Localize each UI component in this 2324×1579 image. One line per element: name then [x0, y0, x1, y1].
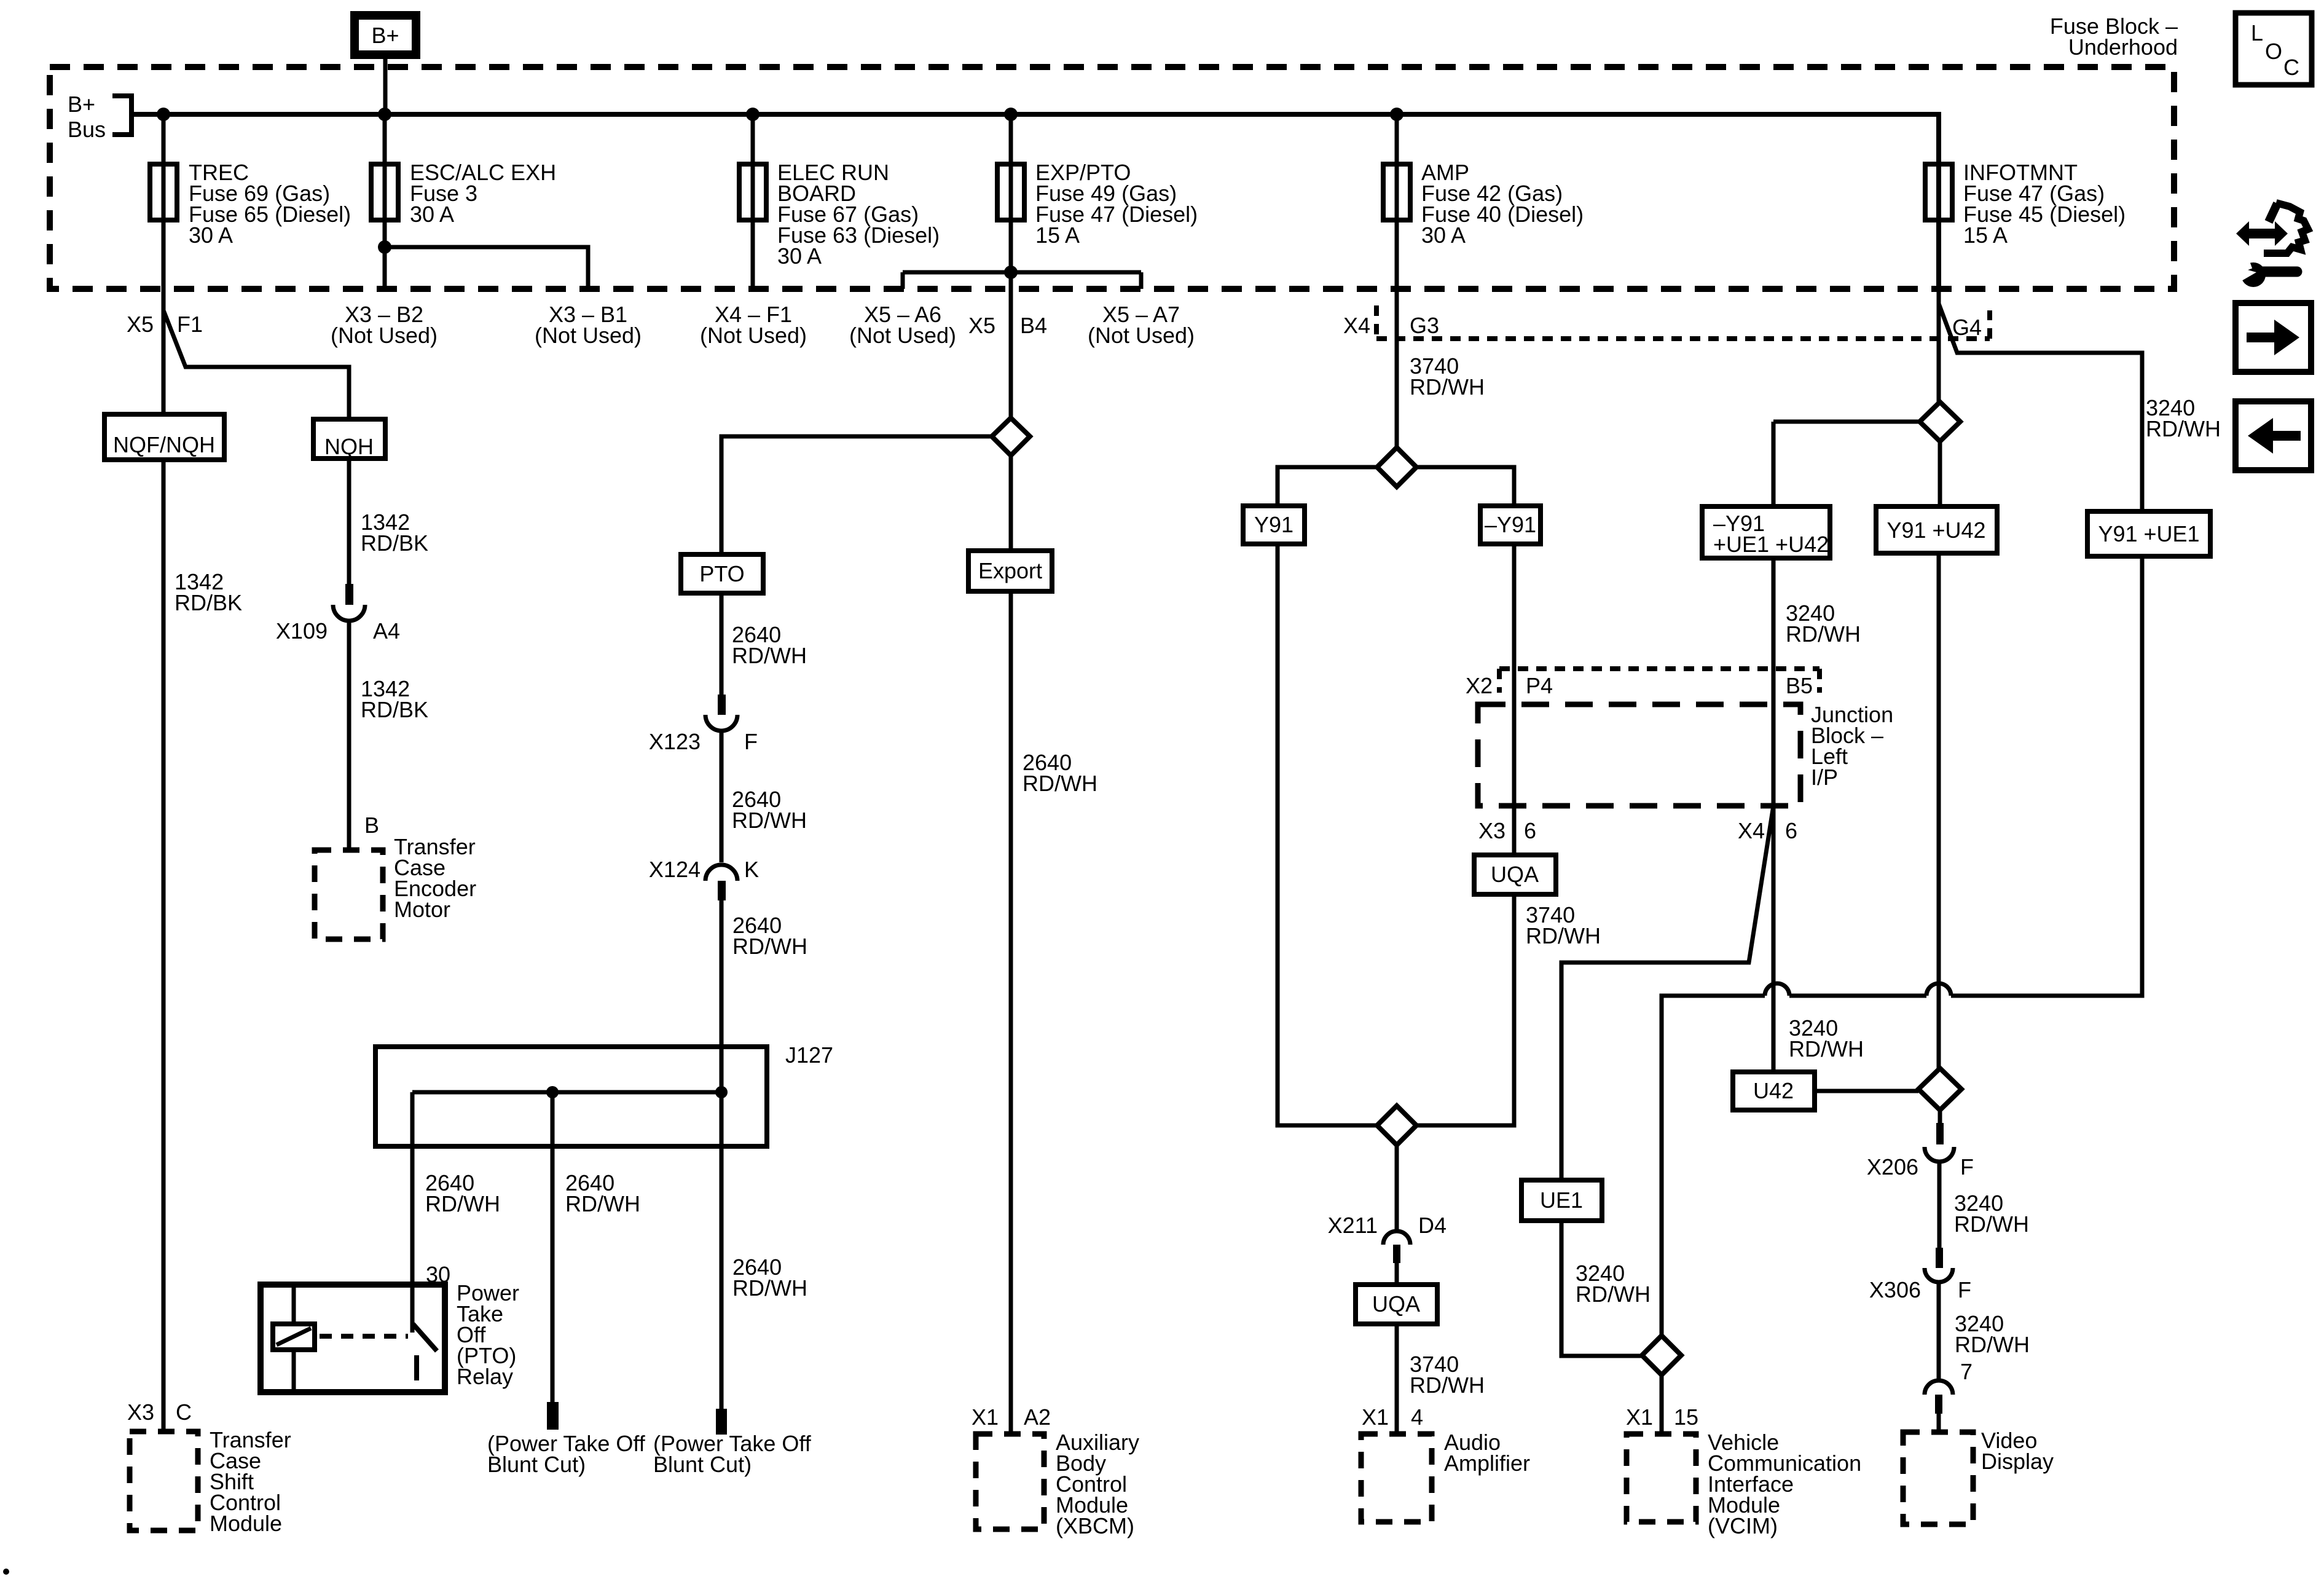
svg-text:RD/WH: RD/WH	[1410, 1372, 1485, 1398]
svg-text:(Not Used): (Not Used)	[1088, 323, 1195, 348]
svg-text:Amplifier: Amplifier	[1444, 1451, 1530, 1476]
svg-text:X206: X206	[1867, 1154, 1918, 1179]
svg-text:X306: X306	[1869, 1277, 1921, 1302]
svg-text:30: 30	[426, 1262, 450, 1287]
svg-text:RD/WH: RD/WH	[732, 643, 807, 668]
svg-text:F: F	[1958, 1277, 1971, 1302]
svg-text:U42: U42	[1753, 1078, 1794, 1103]
svg-text:RD/WH: RD/WH	[1576, 1282, 1651, 1307]
svg-text:B+: B+	[68, 92, 95, 117]
svg-text:X5: X5	[127, 312, 154, 337]
svg-text:F: F	[744, 729, 758, 754]
svg-text:–Y91: –Y91	[1485, 512, 1536, 537]
svg-text:4: 4	[1411, 1404, 1423, 1430]
svg-text:RD/WH: RD/WH	[1955, 1332, 2030, 1357]
svg-text:Export: Export	[978, 558, 1042, 583]
svg-text:Y91 +U42: Y91 +U42	[1886, 518, 1985, 543]
svg-text:G3: G3	[1410, 313, 1439, 338]
svg-text:+UE1 +U42: +UE1 +U42	[1713, 532, 1829, 557]
svg-text:RD/WH: RD/WH	[1954, 1211, 2029, 1237]
svg-text:RD/WH: RD/WH	[732, 1275, 807, 1301]
svg-text:X109: X109	[276, 618, 328, 644]
svg-text:X123: X123	[649, 729, 701, 754]
svg-text:30 A: 30 A	[189, 222, 233, 248]
svg-text:X1: X1	[1362, 1404, 1389, 1430]
svg-text:(Not Used): (Not Used)	[849, 323, 956, 348]
svg-text:K: K	[744, 857, 759, 882]
svg-text:X1: X1	[972, 1404, 999, 1430]
svg-text:Blunt Cut): Blunt Cut)	[487, 1452, 586, 1477]
svg-text:RD/WH: RD/WH	[732, 808, 807, 833]
svg-text:X2: X2	[1466, 673, 1493, 698]
svg-text:(Not Used): (Not Used)	[331, 323, 438, 348]
svg-text:UQA: UQA	[1491, 862, 1539, 887]
svg-text:RD/WH: RD/WH	[1023, 771, 1097, 796]
svg-text:NQF/NQH: NQF/NQH	[113, 432, 215, 457]
svg-text:Y91: Y91	[1254, 512, 1294, 537]
svg-text:RD/WH: RD/WH	[1786, 621, 1861, 647]
svg-text:Relay: Relay	[457, 1364, 513, 1389]
svg-text:RD/BK: RD/BK	[361, 530, 428, 556]
svg-text:15 A: 15 A	[1035, 222, 1080, 248]
svg-text:X1: X1	[1626, 1404, 1653, 1430]
svg-text:B5: B5	[1786, 673, 1813, 698]
svg-text:30 A: 30 A	[410, 202, 454, 227]
svg-text:Blunt Cut): Blunt Cut)	[653, 1452, 752, 1477]
svg-text:(Not Used): (Not Used)	[700, 323, 807, 348]
svg-text:RD/WH: RD/WH	[1789, 1036, 1864, 1061]
svg-text:Bus: Bus	[68, 117, 106, 142]
svg-text:RD/WH: RD/WH	[1526, 923, 1601, 948]
svg-text:X3: X3	[127, 1400, 154, 1425]
svg-text:O: O	[2265, 39, 2282, 64]
svg-text:F: F	[1960, 1154, 1974, 1179]
svg-text:L: L	[2251, 20, 2263, 45]
svg-text:D4: D4	[1418, 1213, 1447, 1238]
svg-text:RD/WH: RD/WH	[2146, 416, 2221, 441]
svg-text:UQA: UQA	[1372, 1291, 1420, 1317]
svg-text:(XBCM): (XBCM)	[1056, 1513, 1134, 1538]
svg-text:B+: B+	[371, 23, 399, 48]
svg-text:P4: P4	[1526, 673, 1553, 698]
svg-text:J127: J127	[785, 1042, 833, 1068]
svg-text:Y91 +UE1: Y91 +UE1	[2098, 521, 2199, 546]
svg-text:NQH: NQH	[324, 434, 374, 459]
svg-text:30 A: 30 A	[777, 243, 822, 269]
svg-text:RD/WH: RD/WH	[425, 1191, 500, 1216]
svg-text:PTO: PTO	[699, 561, 744, 586]
svg-text:X124: X124	[649, 857, 701, 882]
svg-text:RD/WH: RD/WH	[1410, 374, 1485, 400]
svg-text:UE1: UE1	[1540, 1187, 1583, 1213]
svg-text:(VCIM): (VCIM)	[1708, 1513, 1778, 1538]
svg-text:Display: Display	[1981, 1449, 2054, 1474]
svg-text:7: 7	[1960, 1359, 1973, 1384]
svg-text:15: 15	[1674, 1404, 1698, 1430]
svg-text:C: C	[176, 1400, 192, 1425]
svg-text:6: 6	[1785, 818, 1797, 843]
svg-text:B: B	[364, 813, 379, 838]
svg-text:Module: Module	[210, 1511, 282, 1536]
svg-text:C: C	[2283, 55, 2299, 80]
svg-text:Motor: Motor	[394, 897, 450, 922]
svg-text:Underhood: Underhood	[2068, 34, 2178, 60]
svg-text:15 A: 15 A	[1963, 222, 2008, 248]
svg-text:X3: X3	[1478, 818, 1505, 843]
svg-text:RD/BK: RD/BK	[175, 590, 242, 615]
svg-text:X5: X5	[968, 313, 995, 338]
svg-text:30 A: 30 A	[1421, 222, 1466, 248]
svg-text:X4: X4	[1738, 818, 1765, 843]
svg-text:G4: G4	[1952, 315, 1982, 340]
svg-text:I/P: I/P	[1811, 765, 1838, 790]
svg-text:RD/BK: RD/BK	[361, 697, 428, 722]
svg-text:A2: A2	[1024, 1404, 1051, 1430]
svg-text:A4: A4	[373, 618, 400, 644]
svg-text:B4: B4	[1020, 313, 1047, 338]
svg-text:X4: X4	[1343, 313, 1370, 338]
svg-text:F1: F1	[177, 312, 203, 337]
svg-text:X211: X211	[1328, 1213, 1378, 1238]
svg-text:6: 6	[1524, 818, 1536, 843]
svg-text:(Not Used): (Not Used)	[535, 323, 642, 348]
svg-text:RD/WH: RD/WH	[732, 934, 807, 959]
svg-text:RD/WH: RD/WH	[565, 1191, 640, 1216]
